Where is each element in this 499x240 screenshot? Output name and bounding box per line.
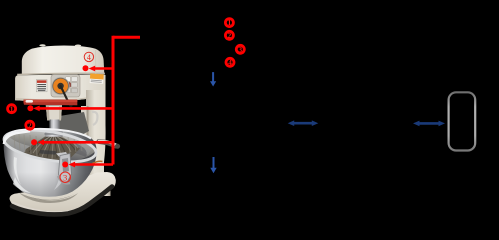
svg-text:4: 4 (87, 53, 91, 62)
svg-text:4: 4 (228, 58, 232, 67)
svg-text:1: 1 (10, 104, 14, 113)
svg-text:3: 3 (63, 172, 67, 182)
svg-text:1: 1 (228, 18, 232, 27)
svg-text:2: 2 (228, 31, 232, 40)
svg-text:2: 2 (28, 121, 32, 130)
svg-text:3: 3 (238, 45, 242, 54)
